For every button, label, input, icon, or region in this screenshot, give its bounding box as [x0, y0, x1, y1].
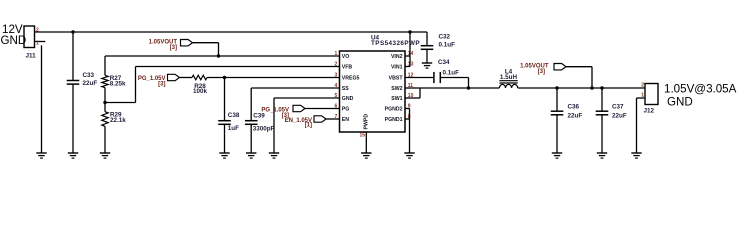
svg-text:2: 2 — [335, 62, 338, 68]
svg-text:GND: GND — [342, 96, 354, 102]
svg-text:C34: C34 — [438, 59, 450, 66]
svg-text:15: 15 — [359, 133, 365, 139]
svg-text:6: 6 — [335, 104, 338, 110]
svg-text:4: 4 — [335, 83, 338, 89]
svg-text:J11: J11 — [26, 52, 37, 59]
svg-text:C32: C32 — [439, 33, 451, 40]
svg-text:VREG5: VREG5 — [342, 76, 360, 82]
svg-text:2: 2 — [641, 83, 644, 89]
svg-text:GND: GND — [1, 34, 27, 47]
svg-text:1.5uH: 1.5uH — [500, 74, 518, 81]
svg-text:VIN1: VIN1 — [391, 65, 403, 71]
svg-text:VO: VO — [342, 54, 350, 60]
svg-text:3: 3 — [335, 73, 338, 79]
svg-text:SS: SS — [342, 86, 349, 92]
svg-text:1: 1 — [335, 51, 338, 57]
svg-text:3300pF: 3300pF — [253, 125, 275, 132]
svg-text:PWPD: PWPD — [364, 114, 370, 130]
svg-text:[1]: [1] — [305, 123, 312, 129]
svg-text:8.25k: 8.25k — [110, 81, 126, 88]
svg-text:VIN2: VIN2 — [391, 54, 403, 60]
svg-text:GND: GND — [667, 95, 693, 108]
svg-text:VFB: VFB — [342, 65, 353, 71]
svg-text:0.1uF: 0.1uF — [443, 70, 460, 77]
svg-text:PGND2: PGND2 — [385, 107, 403, 113]
svg-text:1.05V@3.05A: 1.05V@3.05A — [664, 82, 737, 95]
svg-text:1uF: 1uF — [228, 125, 239, 132]
svg-text:EN: EN — [342, 117, 349, 123]
svg-text:5: 5 — [335, 93, 338, 99]
svg-text:C36: C36 — [568, 104, 580, 111]
svg-text:1: 1 — [36, 40, 39, 46]
svg-text:J12: J12 — [644, 108, 655, 115]
svg-text:[3]: [3] — [538, 69, 545, 75]
svg-text:SW1: SW1 — [391, 96, 402, 102]
svg-text:TPS54326PWP: TPS54326PWP — [371, 40, 420, 47]
svg-text:2: 2 — [36, 27, 39, 33]
svg-text:SW2: SW2 — [391, 86, 402, 92]
svg-text:100k: 100k — [193, 88, 208, 95]
svg-text:0.1uF: 0.1uF — [439, 41, 456, 48]
svg-text:7: 7 — [335, 114, 338, 120]
svg-text:22uF: 22uF — [83, 80, 98, 87]
svg-text:C33: C33 — [83, 72, 95, 79]
svg-text:PG: PG — [342, 107, 350, 113]
svg-text:22uF: 22uF — [568, 113, 583, 120]
svg-text:C37: C37 — [612, 104, 624, 111]
svg-text:22uF: 22uF — [612, 113, 627, 120]
svg-text:22.1k: 22.1k — [110, 117, 126, 124]
svg-text:VBST: VBST — [389, 76, 404, 82]
svg-text:C38: C38 — [228, 112, 240, 119]
svg-text:[3]: [3] — [158, 81, 165, 87]
svg-text:1: 1 — [641, 93, 644, 99]
svg-text:[3]: [3] — [170, 45, 177, 51]
svg-text:PGND1: PGND1 — [385, 117, 403, 123]
